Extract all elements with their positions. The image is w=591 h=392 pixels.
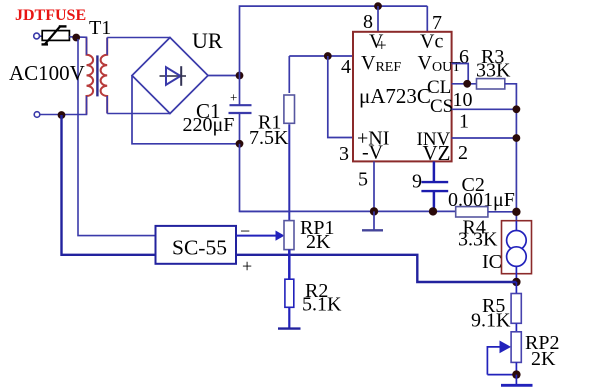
node: lower AC / bottom rail junction (58, 111, 66, 119)
svg-text:9: 9 (412, 171, 422, 193)
ground (R2) (278, 327, 301, 329)
wire R1 top to VREF pin4 (289, 55, 353, 57)
SC-55 module box (156, 226, 237, 264)
svg-text:3: 3 (339, 143, 349, 165)
wire bridge plus (right vertex) to C1 top node (208, 75, 240, 77)
svg-text:10: 10 (453, 89, 473, 111)
RP2 wiper arrow (487, 341, 516, 375)
wire terminal to fuse (40, 35, 43, 37)
capacitor C2 on pin9 (421, 161, 448, 211)
wire CS pin10 to bus (452, 108, 517, 110)
bridge diode symbol (160, 66, 187, 86)
mid rail from RP1 top to R4 (240, 210, 456, 212)
node: R4/bus (512, 208, 520, 216)
transformer T1 secondary winding (101, 38, 108, 114)
wire VOUT pin6 to CL node (452, 64, 469, 84)
svg-text:7.5K: 7.5K (249, 127, 289, 149)
svg-text:μA723C: μA723C (359, 84, 431, 108)
node: CL junction (463, 80, 471, 88)
node: bridge + / C1 top (236, 72, 244, 80)
svg-text:4: 4 (341, 56, 351, 78)
svg-text:3.3K: 3.3K (458, 229, 498, 251)
node: C2 bottom / rail (429, 207, 437, 215)
node: IC bottom (512, 278, 520, 286)
resistor R3 (477, 79, 505, 89)
svg-text:1: 1 (459, 111, 469, 133)
svg-text:-V: -V (362, 142, 384, 164)
bottom rail from SC-55 plus to IC bottom (236, 255, 516, 282)
node: fuse/SC-55 branch junction (72, 34, 80, 42)
wire SC-55 minus output with arrow to RP1 (236, 235, 277, 237)
wire R3 right then down the right bus (505, 84, 517, 221)
wire CL pin to R3 (452, 83, 477, 85)
node: CS/bus (513, 105, 521, 113)
svg-text:−: − (240, 221, 250, 241)
wire + node up and top rail to pin7 (240, 6, 428, 75)
wire junction down then bottom rail into SC-55 (62, 115, 156, 255)
svg-text:UR: UR (192, 28, 223, 53)
svg-text:5.1K: 5.1K (302, 294, 342, 316)
ground (pin5 rail) (373, 211, 375, 230)
node: INV/bus (513, 134, 521, 142)
wire pin7 drop (426, 6, 428, 32)
wire RP1 bottom through rail to R2 (288, 250, 291, 280)
capacitor C1 (229, 76, 252, 144)
wire bridge minus (left vertex) down to minus rail (132, 76, 240, 144)
svg-text:2K: 2K (531, 348, 556, 370)
node: VREF / NI branch (324, 52, 332, 60)
svg-text:+: + (377, 36, 387, 55)
transformer T1 primary winding (87, 38, 94, 115)
transformer T1 core (96, 55, 98, 96)
AC input terminal (upper) (34, 33, 40, 39)
svg-text:33K: 33K (476, 60, 511, 82)
resistor R1 (284, 56, 295, 221)
potentiometer RP1 (284, 221, 294, 250)
wire VREF node down to pin3 NI (328, 56, 353, 138)
wire secondary top to bridge (107, 37, 170, 39)
resistor R2 (285, 279, 294, 328)
svg-text:8: 8 (363, 11, 373, 33)
svg-text:9.1K: 9.1K (471, 310, 511, 332)
resistor R5 (511, 282, 521, 332)
svg-text:220μF: 220μF (183, 114, 235, 136)
AC input terminal (lower) (34, 112, 40, 118)
svg-text:5: 5 (358, 169, 368, 191)
bridge rectifier UR diamond (132, 38, 208, 114)
svg-text:CS: CS (430, 96, 453, 117)
wire junction down to SC-55 input (78, 39, 156, 236)
op-amp U1 uA723C box (353, 32, 452, 162)
wire pin8 drop (377, 6, 379, 32)
wire minus node down then right to RP1 top (240, 144, 290, 212)
wire R4 right to bus node (488, 211, 517, 213)
potentiometer RP2 (511, 332, 521, 375)
svg-text:+: + (242, 256, 252, 276)
current-sense IC (two-circle symbol) (502, 221, 532, 274)
node: pin5/ground (370, 207, 378, 215)
svg-text:2: 2 (458, 142, 468, 164)
svg-text:CL: CL (427, 77, 451, 98)
resistor R4 (456, 207, 488, 217)
wire INV pin2 to bus (452, 137, 517, 139)
svg-text:IC: IC (482, 251, 502, 273)
node: RP2 bottom (512, 370, 520, 378)
svg-text:2K: 2K (306, 231, 331, 253)
fuse F1 (thermal fuse symbol) (42, 26, 70, 44)
svg-text:AC100V: AC100V (9, 61, 85, 85)
svg-text:T1: T1 (89, 17, 111, 39)
svg-text:JDTFUSE: JDTFUSE (15, 7, 86, 24)
node: C1 bottom / minus rail (236, 140, 244, 148)
wire fuse to transformer primary (69, 36, 87, 39)
wire lower terminal to transformer primary (40, 114, 87, 116)
node: top rail pin8 branch (374, 2, 382, 10)
svg-text:VZ: VZ (423, 141, 451, 165)
svg-text:SC-55: SC-55 (172, 236, 227, 260)
ground (RP2) (515, 375, 517, 385)
wire pin5 down to ground rail (373, 161, 375, 211)
svg-text:7: 7 (432, 12, 442, 34)
wire secondary bottom to bridge (107, 113, 170, 115)
svg-text:+: + (230, 90, 237, 105)
